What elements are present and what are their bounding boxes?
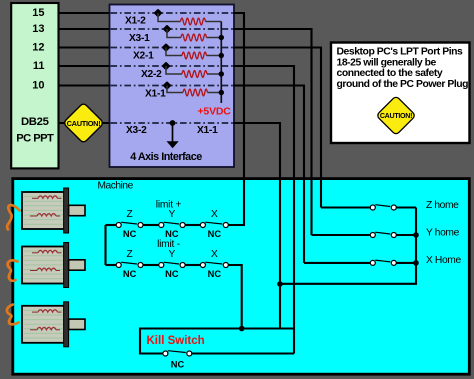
wire pin 11 to interface	[59, 65, 111, 67]
switch limit Y NC contact	[159, 223, 164, 228]
wire drop row 5	[167, 86, 183, 93]
switch limit Z NC contact	[116, 223, 121, 228]
motor M1 winding L1a	[32, 196, 62, 198]
svg-text:Y: Y	[169, 249, 176, 260]
net row 5 dash-dot line	[111, 85, 234, 87]
connector J1 DB25 box	[11, 3, 58, 168]
motor M3 mounting plate	[64, 302, 69, 347]
svg-text:X2-2: X2-2	[141, 69, 162, 80]
junction node row 5	[163, 81, 172, 90]
wire pin 10 to interface	[59, 84, 111, 86]
wire ground row DB25 to interface (through caution)	[59, 122, 111, 124]
kill switch box top wire	[140, 327, 294, 329]
wire pin15 net to limit chain	[233, 13, 244, 225]
wire X Home row	[304, 262, 370, 264]
bus junction	[219, 53, 224, 58]
svg-text:+5VDC: +5VDC	[198, 106, 232, 118]
svg-text:X Home: X Home	[426, 255, 461, 266]
net row 1 dash-dot line	[111, 12, 234, 14]
4 axis interface board U1	[110, 5, 235, 168]
resistor R2	[181, 34, 207, 41]
junction node row 3	[162, 43, 171, 52]
resistor R1	[181, 18, 206, 25]
switch Y home NO contact	[370, 233, 375, 238]
junction node ground row	[170, 120, 176, 126]
svg-text:NC: NC	[171, 360, 185, 370]
bus junction	[219, 35, 224, 40]
wire Z home row	[321, 206, 370, 208]
motor M2 lead wire	[8, 260, 18, 280]
wire limit row 2 left stub	[106, 264, 117, 266]
wire pin 13 to interface	[59, 28, 111, 30]
net row 4 dash-dot line	[111, 65, 234, 67]
svg-text:Y: Y	[169, 209, 176, 220]
wire ground net to kill switch top	[233, 123, 280, 329]
motor M2 mounting plate	[64, 243, 69, 288]
wire R1 to +5V bus	[206, 21, 222, 23]
bus junction	[219, 71, 224, 76]
svg-text:12: 12	[32, 42, 44, 54]
svg-text:Machine: Machine	[98, 181, 134, 192]
wire R2 to +5V bus	[207, 37, 222, 39]
wire pin 12 to interface	[59, 46, 111, 48]
stepper motor M3 body	[22, 306, 65, 343]
bus junction	[219, 90, 224, 95]
caution symbol W1	[63, 102, 104, 143]
svg-text:NC: NC	[208, 229, 222, 239]
switch limit X NC contact	[200, 223, 205, 228]
svg-text:X2-1: X2-1	[133, 51, 154, 62]
junction home X	[413, 260, 419, 266]
wire between switches	[143, 264, 159, 266]
switch Z home NO contact	[370, 205, 375, 210]
svg-text:CAUTION!: CAUTION!	[380, 112, 412, 120]
motor M1 lead wire	[7, 205, 19, 229]
svg-text:Y home: Y home	[426, 227, 460, 238]
motor M1 winding L1b	[30, 214, 60, 216]
wire drop row 1	[158, 13, 181, 22]
motor M3 winding L3a	[32, 310, 62, 312]
wire between switches	[185, 224, 200, 226]
svg-text:DB25: DB25	[21, 116, 49, 128]
svg-text:PC PPT: PC PPT	[16, 133, 54, 145]
resistor R5	[183, 89, 208, 96]
switch X Home NO contact	[370, 260, 375, 265]
wire limit row2 right to kill switch	[228, 265, 241, 329]
svg-text:4 Axis Interface: 4 Axis Interface	[130, 151, 202, 163]
switch limit Z NC contact	[116, 263, 121, 268]
svg-text:NC: NC	[123, 229, 137, 239]
wire drop row 3	[166, 48, 182, 56]
wire between switches	[185, 264, 200, 266]
kill switch box left wire	[139, 328, 141, 355]
caution symbol W2	[376, 96, 416, 136]
svg-text:15: 15	[32, 7, 44, 19]
wire limit row1 right to pin15 net	[228, 224, 245, 226]
svg-text:18-25 will generally be: 18-25 will generally be	[337, 57, 437, 68]
motor M2 shaft	[69, 260, 85, 270]
svg-text:X: X	[211, 209, 218, 220]
svg-text:Z home: Z home	[426, 200, 459, 211]
motor M3 winding L3b	[30, 327, 60, 329]
junction node row 1	[154, 9, 163, 18]
motor M2 winding L2b	[30, 268, 60, 270]
ground arrow	[172, 123, 174, 142]
wire limit row 1 left stub	[106, 224, 117, 226]
net row 6 dash-dot line	[111, 122, 234, 124]
svg-text:NC: NC	[123, 269, 137, 279]
junction kill top / limit chain	[239, 326, 245, 332]
wire pin13 net to Y home	[233, 29, 312, 235]
svg-text:Kill Switch: Kill Switch	[147, 335, 205, 347]
svg-text:connected to the safety: connected to the safety	[337, 68, 443, 79]
motor M2 winding L2a	[32, 250, 62, 252]
junction ground net / home common	[277, 281, 283, 287]
resistor R3	[182, 52, 207, 59]
svg-text:11: 11	[33, 60, 45, 72]
motor M3 shaft	[69, 319, 85, 329]
junction node row 2	[163, 25, 172, 34]
svg-text:Desktop PC's LPT Port Pins: Desktop PC's LPT Port Pins	[337, 47, 464, 58]
wire pin11 net to kill switch	[233, 66, 294, 354]
junction node row 4	[162, 62, 171, 71]
wire R3 to +5V bus	[207, 55, 222, 57]
svg-text:NC: NC	[165, 229, 179, 239]
wire limit chain left link	[104, 225, 106, 265]
wire drop row 2	[167, 29, 181, 38]
junction home Y	[413, 232, 419, 238]
switch kill NC contact	[163, 351, 168, 356]
svg-text:X1-1: X1-1	[197, 125, 218, 136]
svg-text:X1-1: X1-1	[145, 89, 166, 100]
svg-text:X: X	[211, 249, 218, 260]
wire R5 to +5V bus	[208, 92, 222, 94]
motor M1 mounting plate	[64, 188, 69, 233]
+5VDC bus wire	[220, 22, 222, 104]
motor M3 lead wire	[7, 305, 19, 325]
note box	[331, 43, 470, 144]
svg-text:Z: Z	[126, 249, 132, 260]
svg-text:NC: NC	[165, 269, 179, 279]
svg-text:10: 10	[32, 80, 44, 92]
svg-text:ground of the PC Power Plug: ground of the PC Power Plug	[337, 79, 469, 90]
motor M1 shaft	[69, 205, 85, 215]
resistor R4	[182, 71, 207, 78]
wire pin12 net to Z home	[233, 48, 321, 208]
wire Y home row	[312, 234, 371, 236]
switch limit X NC contact	[200, 263, 205, 268]
svg-text:X1-2: X1-2	[125, 15, 146, 26]
svg-text:CAUTION!: CAUTION!	[67, 119, 101, 128]
svg-text:Z: Z	[126, 209, 132, 220]
wire pin 15 to interface	[59, 12, 111, 14]
wire drop row 4	[166, 66, 182, 74]
wire between switches	[143, 224, 159, 226]
svg-text:13: 13	[32, 23, 44, 35]
net row 3 dash-dot line	[111, 47, 234, 49]
kill switch box bottom wires	[140, 352, 163, 354]
switch limit Y NC contact	[159, 263, 164, 268]
machine enclosure box	[13, 179, 470, 375]
stepper motor M2 body	[22, 247, 65, 284]
svg-text:X3-1: X3-1	[129, 33, 150, 44]
svg-text:X3-2: X3-2	[126, 125, 147, 136]
net row 2 dash-dot line	[111, 28, 234, 30]
wire pin10 net to X home	[233, 86, 304, 263]
wire R4 to +5V bus	[207, 73, 221, 75]
svg-text:NC: NC	[208, 269, 222, 279]
stepper motor M1 body	[22, 192, 65, 229]
wire home common bus	[280, 208, 416, 284]
